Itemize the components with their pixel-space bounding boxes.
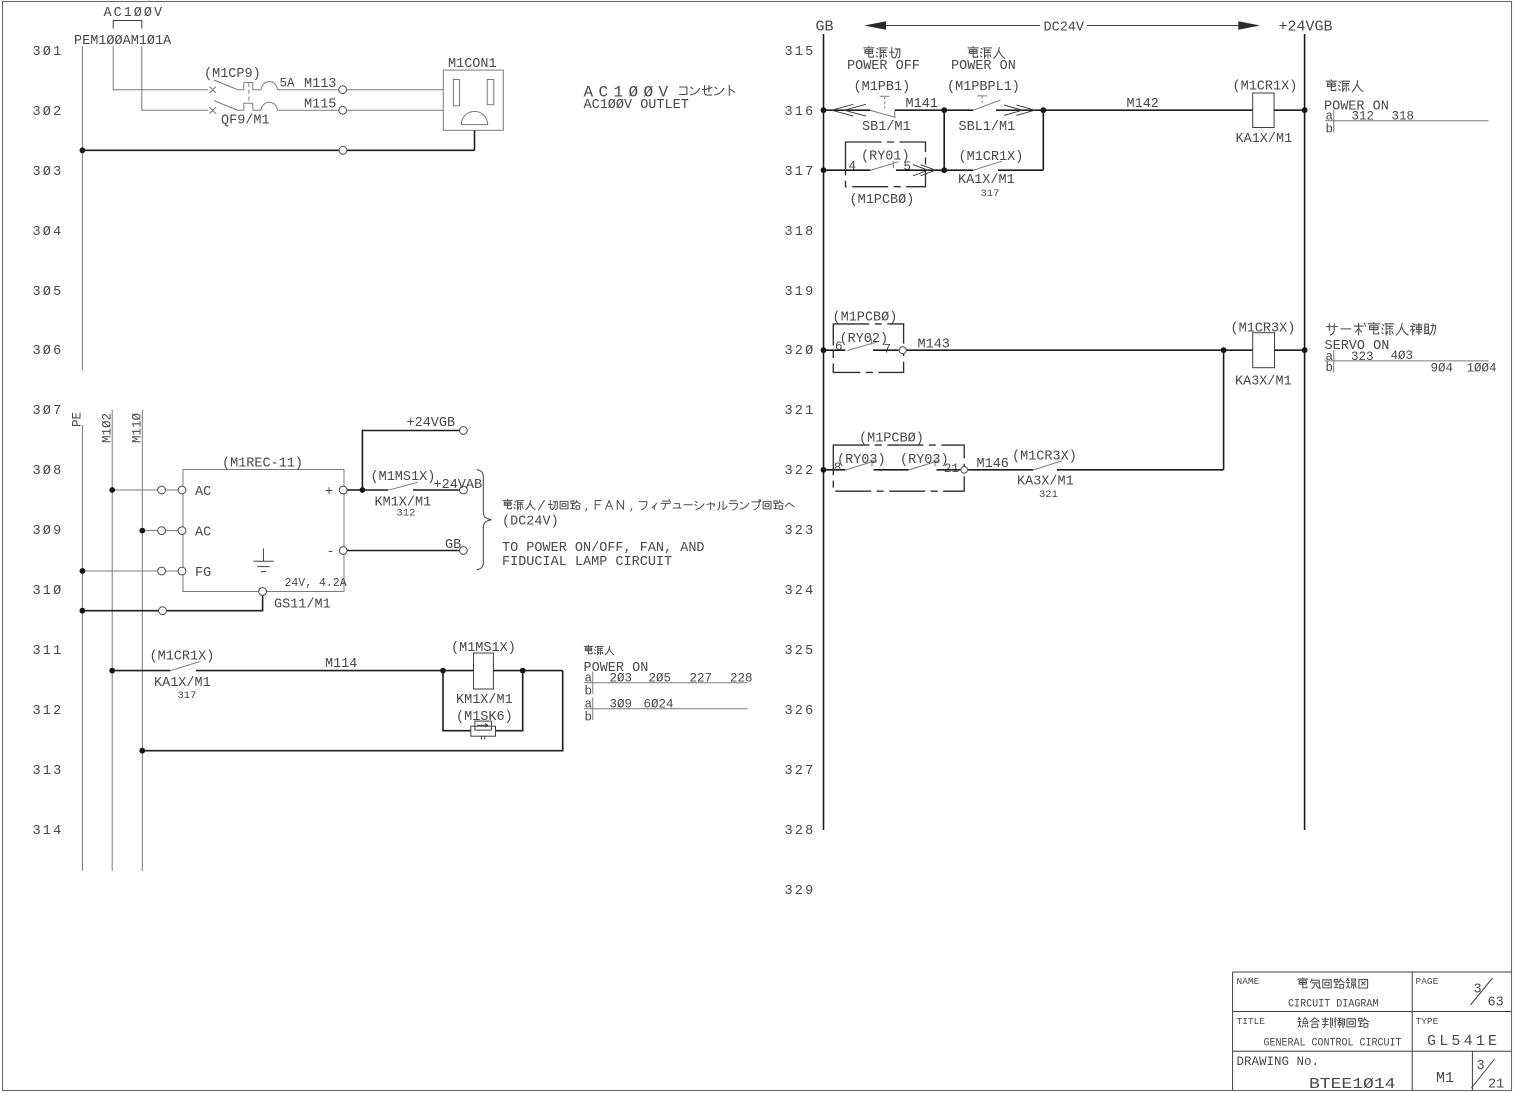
svg-text:PEM1ØØAM1Ø1A: PEM1ØØAM1Ø1A bbox=[74, 34, 172, 49]
svg-text:323: 323 bbox=[1351, 350, 1374, 364]
svg-text:SB1/M1: SB1/M1 bbox=[862, 120, 911, 135]
svg-text:KA3X/M1: KA3X/M1 bbox=[1235, 375, 1292, 390]
title AC100V outlet (katakana via vector glyphs) bbox=[584, 84, 735, 114]
svg-text:GB: GB bbox=[445, 538, 461, 553]
junction dot rung 320 bbox=[1221, 347, 1227, 353]
svg-text:4: 4 bbox=[849, 160, 857, 174]
vertical wire rung 322 to rung 320 bbox=[1223, 350, 1225, 470]
svg-text:FIDUCIAL LAMP CIRCUIT: FIDUCIAL LAMP CIRCUIT bbox=[502, 555, 672, 570]
svg-text:24V, 4.2A: 24V, 4.2A bbox=[285, 577, 347, 590]
svg-text:(M1CR1X): (M1CR1X) bbox=[959, 150, 1024, 165]
cross-reference table KA3X (servo on) bbox=[1325, 322, 1497, 375]
svg-text:325: 325 bbox=[785, 644, 816, 659]
svg-text:312: 312 bbox=[1352, 110, 1375, 124]
wire drop to breaker pole 2 bbox=[142, 46, 208, 110]
svg-text:AC1ØØV: AC1ØØV bbox=[104, 6, 165, 21]
wire rung 311 left bbox=[112, 670, 170, 672]
svg-text:M1Ø2: M1Ø2 bbox=[101, 413, 115, 443]
wire to connector bbox=[937, 469, 961, 471]
contact M1CR1X (KA1X/M1) NO bbox=[170, 662, 200, 671]
FG terminal: junction on PE bbox=[80, 568, 86, 574]
svg-text:321: 321 bbox=[1039, 489, 1058, 501]
wire between junctions rung 316 bbox=[944, 109, 973, 111]
svg-text:FG: FG bbox=[195, 566, 211, 581]
wire rung 320 left bbox=[824, 349, 846, 351]
svg-text:314: 314 bbox=[33, 824, 64, 839]
note: to power on/off fan fiducial lamp circuit (DC24V) bbox=[503, 499, 794, 510]
connector chevrons << bbox=[832, 104, 866, 116]
svg-text:(M1PCBØ): (M1PCBØ) bbox=[833, 311, 898, 326]
wire outlet to ground line bbox=[474, 130, 476, 150]
wire drop to breaker pole 1 bbox=[113, 46, 208, 90]
vertical wire M141 junctions bbox=[943, 110, 945, 170]
svg-text:315: 315 bbox=[785, 45, 816, 60]
svg-text:2Ø5: 2Ø5 bbox=[649, 672, 672, 686]
wire between RY03 contacts bbox=[874, 469, 909, 471]
wire M102 vertical bbox=[111, 410, 113, 871]
svg-text:3Ø7: 3Ø7 bbox=[33, 404, 64, 419]
contact RY02 pins 6-7 bbox=[847, 338, 877, 350]
svg-text:227: 227 bbox=[690, 672, 713, 686]
svg-text:M115: M115 bbox=[304, 98, 336, 113]
wire M110 vertical bbox=[141, 410, 143, 871]
svg-text:328: 328 bbox=[785, 824, 816, 839]
wire to AC1 bbox=[115, 489, 158, 491]
svg-text:(M1CR1X): (M1CR1X) bbox=[150, 650, 215, 665]
wire M146 bbox=[968, 469, 1033, 471]
svg-text:QF9/M1: QF9/M1 bbox=[221, 114, 270, 129]
surge killer symbol bbox=[471, 721, 496, 740]
svg-text:M143: M143 bbox=[918, 338, 950, 353]
title kanji: general control circuit bbox=[1298, 1017, 1369, 1027]
wire + to junction bbox=[347, 489, 362, 491]
dashed enclosure (M1PCB0) RY01 bbox=[846, 142, 926, 187]
svg-text:318: 318 bbox=[1392, 110, 1415, 124]
connector circle on ground line bbox=[339, 146, 347, 154]
svg-text:3: 3 bbox=[1477, 1059, 1485, 1074]
svg-text:M146: M146 bbox=[977, 457, 1009, 472]
circuit breaker pole 2 bbox=[210, 101, 339, 114]
junction dot on +24VGB bus bbox=[1302, 107, 1308, 113]
AC terminal 2: junction on M110 bbox=[139, 528, 145, 534]
contact M1CR3X (KA3X/M1) bbox=[1033, 461, 1062, 470]
bus GB vertical bbox=[823, 34, 825, 830]
svg-text:(M1CP9): (M1CP9) bbox=[204, 67, 261, 82]
svg-text:5: 5 bbox=[904, 160, 912, 174]
connector circle M146 bbox=[961, 467, 968, 474]
rung 317: junction dot on GB bus bbox=[821, 167, 827, 173]
surge killer M1SK6 branch bbox=[443, 671, 523, 731]
svg-text:(RY01): (RY01) bbox=[861, 150, 910, 165]
svg-text:b: b bbox=[585, 685, 593, 699]
wire PE vertical bbox=[81, 46, 83, 871]
svg-text:AC1ØØV OUTLET: AC1ØØV OUTLET bbox=[584, 98, 689, 113]
wire coil right bbox=[493, 670, 562, 672]
svg-text:-: - bbox=[327, 545, 335, 560]
rung 311: junction dot on M102 bbox=[109, 668, 115, 674]
contact RY03 first pin 8 bbox=[845, 459, 876, 470]
junction dot on PE bbox=[80, 608, 86, 614]
curly brace for DC24V distribution bbox=[477, 470, 492, 570]
svg-text:KA1X/M1: KA1X/M1 bbox=[1236, 132, 1293, 147]
label power off kanji bbox=[864, 46, 900, 58]
svg-text:M141: M141 bbox=[906, 97, 938, 112]
coil M1MS1X (KM1X/M1) bbox=[474, 653, 494, 689]
svg-text:PE: PE bbox=[71, 412, 85, 427]
name kanji: circuit diagram bbox=[1298, 978, 1368, 989]
connector circles FG bbox=[158, 567, 166, 575]
svg-text:+: + bbox=[325, 485, 333, 500]
power supply box M1REC-11 bbox=[183, 470, 344, 592]
svg-text:b: b bbox=[1326, 123, 1334, 137]
circuit breaker QF9/M1 (M1CP9) pole 1 bbox=[210, 80, 339, 93]
svg-text:SBL1/M1: SBL1/M1 bbox=[959, 120, 1016, 135]
wire M142 bbox=[1043, 109, 1252, 111]
svg-text:6Ø24: 6Ø24 bbox=[644, 698, 674, 712]
svg-text:5A: 5A bbox=[280, 77, 296, 91]
svg-text:a: a bbox=[1326, 110, 1334, 124]
contact RY01 pins 4-5 bbox=[870, 161, 898, 171]
svg-text:3Ø6: 3Ø6 bbox=[33, 344, 64, 359]
wire to FG bbox=[85, 570, 158, 572]
wire down to return line bbox=[142, 671, 562, 751]
terminal circle - bbox=[339, 547, 347, 555]
rung 316: junction dot on GB bus bbox=[821, 107, 827, 113]
svg-text:311: 311 bbox=[33, 644, 64, 659]
relay coil M1CR1X (KA1X/M1) bbox=[1253, 93, 1274, 128]
title block bbox=[1233, 972, 1512, 1091]
connector circle +24VGB bbox=[460, 427, 468, 435]
svg-text:(M1MS1X): (M1MS1X) bbox=[451, 641, 516, 656]
svg-text:(M1CR1X): (M1CR1X) bbox=[1233, 80, 1298, 95]
svg-text:317: 317 bbox=[178, 690, 197, 702]
svg-text:POWER OFF: POWER OFF bbox=[847, 59, 920, 74]
connector circle +24VAB bbox=[460, 486, 468, 494]
svg-text:324: 324 bbox=[785, 584, 816, 599]
svg-text:323: 323 bbox=[785, 524, 816, 539]
svg-text:PAGE: PAGE bbox=[1416, 976, 1439, 987]
contact M1CR1X (KA1X/M1) self-hold bbox=[944, 169, 973, 171]
wire to coil bbox=[443, 670, 474, 672]
svg-text:KM1X/M1: KM1X/M1 bbox=[456, 693, 513, 708]
junction dot +24V bbox=[360, 487, 366, 493]
svg-text:321: 321 bbox=[785, 404, 816, 419]
svg-text:M11Ø: M11Ø bbox=[131, 412, 145, 443]
svg-text:(M1PB1): (M1PB1) bbox=[854, 80, 911, 95]
svg-text:326: 326 bbox=[785, 704, 816, 719]
label power on kanji bbox=[968, 46, 1005, 58]
line numbers left column 301-314 bbox=[33, 45, 64, 839]
relay coil M1CR3X (KA3X/M1) bbox=[1253, 333, 1275, 368]
connector circle M115 bbox=[339, 106, 347, 114]
svg-text:AC: AC bbox=[195, 485, 211, 500]
wire ground line 303 bbox=[82, 149, 474, 151]
svg-text:M142: M142 bbox=[1127, 97, 1159, 112]
connector circle on GS wire bbox=[159, 607, 167, 615]
junction dot self-hold bbox=[1040, 107, 1046, 113]
outlet M1CON1 body bbox=[443, 70, 503, 130]
svg-text:31Ø: 31Ø bbox=[33, 584, 64, 599]
svg-text:312: 312 bbox=[397, 508, 416, 520]
svg-text:3Ø9: 3Ø9 bbox=[33, 524, 64, 539]
contact M1MS1X (KM1X/M1) bbox=[362, 489, 388, 491]
svg-text:+24VAB: +24VAB bbox=[434, 478, 483, 493]
svg-text:4Ø3: 4Ø3 bbox=[1391, 349, 1414, 363]
svg-text:3: 3 bbox=[1474, 983, 1482, 998]
wire - to GB terminal bbox=[347, 550, 459, 552]
svg-text:(M1CR3X): (M1CR3X) bbox=[1012, 450, 1077, 465]
svg-text:(M1PBPL1): (M1PBPL1) bbox=[947, 80, 1020, 95]
svg-text:DRAWING No.: DRAWING No. bbox=[1237, 1055, 1320, 1069]
junction dot M141 bbox=[941, 107, 947, 113]
svg-text:GS11/M1: GS11/M1 bbox=[274, 598, 331, 613]
junction dot on M110 bbox=[139, 748, 145, 754]
wire M141 bbox=[895, 109, 944, 111]
contact RY03 second pin 21 bbox=[909, 459, 940, 470]
svg-text:3Ø1: 3Ø1 bbox=[33, 45, 64, 60]
svg-text:(M1PCBØ): (M1PCBØ) bbox=[859, 432, 924, 447]
ground symbol inside M1REC-11 bbox=[253, 548, 273, 571]
svg-text:316: 316 bbox=[785, 105, 816, 120]
svg-text:(RY03): (RY03) bbox=[900, 453, 949, 468]
rung 320: junction dot on GB bus bbox=[821, 347, 827, 353]
svg-text:NAME: NAME bbox=[1237, 976, 1260, 987]
dashed enclosure (M1PCB0) RY03 RY03 bbox=[833, 445, 964, 491]
svg-text:3Ø3: 3Ø3 bbox=[33, 165, 64, 180]
svg-text:3Ø5: 3Ø5 bbox=[33, 285, 64, 300]
junction dot PE/ground bbox=[80, 147, 86, 153]
wire coil to +24VGB bus bbox=[1275, 349, 1305, 351]
svg-text:(RY03): (RY03) bbox=[837, 453, 886, 468]
svg-text:(DC24V): (DC24V) bbox=[502, 515, 559, 530]
wire rung 320 to connector bbox=[873, 349, 899, 351]
svg-text:TITLE: TITLE bbox=[1237, 1016, 1266, 1027]
svg-text:63: 63 bbox=[1488, 996, 1504, 1011]
wire GS11/M1 to PE bbox=[82, 595, 262, 610]
AC terminal 1: junction on M102 bbox=[109, 487, 115, 493]
svg-text:(M1CR3X): (M1CR3X) bbox=[1231, 322, 1296, 337]
svg-text:+24VGB: +24VGB bbox=[1279, 19, 1333, 36]
breaker mechanical link bbox=[248, 83, 250, 104]
wire coil to +24VGB bbox=[1274, 109, 1305, 111]
svg-text:M113: M113 bbox=[304, 77, 336, 92]
connector chevrons >> bbox=[1004, 105, 1035, 115]
connector circle M113 bbox=[339, 86, 347, 94]
connector circle GB bbox=[460, 547, 468, 555]
cross-reference table KM1X (power on) bbox=[584, 645, 753, 724]
svg-text:(M1MS1X): (M1MS1X) bbox=[371, 470, 436, 485]
svg-text:3Ø2: 3Ø2 bbox=[33, 105, 64, 120]
wire after pushbutton bbox=[996, 109, 1043, 111]
wire to +24VGB terminal bbox=[362, 431, 459, 491]
svg-text:322: 322 bbox=[785, 464, 816, 479]
connector circle M143 bbox=[899, 347, 906, 354]
junction dot on +24VGB bus bbox=[1302, 347, 1308, 353]
svg-text:a: a bbox=[585, 698, 593, 712]
cross-reference table KA1X (power on) bbox=[1324, 80, 1489, 137]
svg-text:(M1PCBØ): (M1PCBØ) bbox=[850, 193, 915, 208]
svg-text:32Ø: 32Ø bbox=[785, 344, 816, 359]
svg-text:327: 327 bbox=[785, 764, 816, 779]
wire rung 316 bbox=[824, 109, 871, 111]
svg-text:KA1X/M1: KA1X/M1 bbox=[958, 173, 1015, 188]
svg-text:b: b bbox=[1326, 361, 1334, 375]
svg-text:+24VGB: +24VGB bbox=[407, 416, 456, 431]
svg-text:b: b bbox=[585, 711, 593, 725]
svg-text:GL541E: GL541E bbox=[1427, 1033, 1500, 1050]
svg-text:9Ø4: 9Ø4 bbox=[1431, 361, 1454, 375]
svg-text:KA1X/M1: KA1X/M1 bbox=[154, 676, 211, 691]
pushbutton M1PBPL1 (SBL1/M1) NO power on bbox=[973, 96, 1000, 110]
wire M115 to outlet bbox=[347, 109, 444, 111]
svg-text:3Ø9: 3Ø9 bbox=[610, 698, 633, 712]
DC24V span arrow bbox=[864, 21, 1260, 36]
svg-text:GB: GB bbox=[816, 19, 834, 36]
wire rung 317 mid bbox=[896, 169, 944, 171]
junction dot coil left bbox=[440, 668, 446, 674]
vertical wire self-hold to rung 316 bbox=[1042, 110, 1044, 170]
svg-text:228: 228 bbox=[730, 672, 753, 686]
pushbutton M1PB1 (SB1/M1) NC power off bbox=[870, 96, 895, 118]
node AC100V label and bracket bbox=[104, 6, 165, 29]
junction dot coil right bbox=[520, 668, 526, 674]
wire rung 317 left bbox=[824, 169, 871, 171]
connector circles AC1 bbox=[158, 486, 166, 494]
connector chevrons >> rung 317 bbox=[913, 165, 936, 176]
svg-text:3Ø8: 3Ø8 bbox=[33, 464, 64, 479]
wire M143 bbox=[907, 349, 1253, 351]
svg-text:BTEE1Ø14: BTEE1Ø14 bbox=[1309, 1076, 1396, 1093]
wire M113 to outlet bbox=[347, 89, 444, 91]
svg-text:AC: AC bbox=[195, 526, 211, 541]
terminal circle + bbox=[339, 486, 347, 494]
connector circles AC2 bbox=[158, 527, 166, 535]
svg-text:317: 317 bbox=[981, 188, 1000, 200]
svg-text:a: a bbox=[585, 672, 593, 686]
wire to AC2 bbox=[145, 530, 158, 532]
svg-text:DC24V: DC24V bbox=[1044, 21, 1085, 36]
wire rung 322 left bbox=[824, 469, 846, 471]
svg-text:1ØØ4: 1ØØ4 bbox=[1467, 361, 1497, 375]
svg-text:TYPE: TYPE bbox=[1416, 1016, 1439, 1027]
svg-text:GENERAL CONTROL CIRCUIT: GENERAL CONTROL CIRCUIT bbox=[1264, 1038, 1402, 1050]
svg-text:M114: M114 bbox=[325, 657, 357, 672]
svg-text:329: 329 bbox=[785, 884, 816, 899]
svg-text:KA3X/M1: KA3X/M1 bbox=[1017, 475, 1074, 490]
svg-text:312: 312 bbox=[33, 704, 64, 719]
svg-text:TO POWER ON/OFF, FAN, AND: TO POWER ON/OFF, FAN, AND bbox=[502, 541, 705, 556]
svg-text:(RY02): (RY02) bbox=[840, 332, 889, 347]
rung 322: junction dot on GB bus bbox=[821, 467, 827, 473]
svg-text:318: 318 bbox=[785, 225, 816, 240]
dashed enclosure (M1PCB0) RY02 bbox=[833, 324, 903, 373]
bus +24VGB vertical bbox=[1304, 34, 1306, 830]
svg-text:3Ø4: 3Ø4 bbox=[33, 225, 64, 240]
wire M114 bbox=[196, 670, 443, 672]
junction dot rung 317 bbox=[941, 167, 947, 173]
svg-text:317: 317 bbox=[785, 165, 816, 180]
svg-text:CIRCUIT DIAGRAM: CIRCUIT DIAGRAM bbox=[1288, 999, 1379, 1011]
svg-text:POWER ON: POWER ON bbox=[951, 59, 1016, 74]
svg-text:2Ø3: 2Ø3 bbox=[610, 672, 633, 686]
svg-text:(M1REC-11): (M1REC-11) bbox=[222, 457, 303, 472]
line numbers right column 315-329 bbox=[785, 45, 816, 899]
bottom terminal circle bbox=[259, 588, 267, 596]
svg-text:M1: M1 bbox=[1436, 1070, 1454, 1087]
svg-text:313: 313 bbox=[33, 764, 64, 779]
svg-text:21: 21 bbox=[1488, 1078, 1504, 1093]
svg-text:(M1SK6): (M1SK6) bbox=[456, 710, 513, 725]
svg-text:319: 319 bbox=[785, 285, 816, 300]
